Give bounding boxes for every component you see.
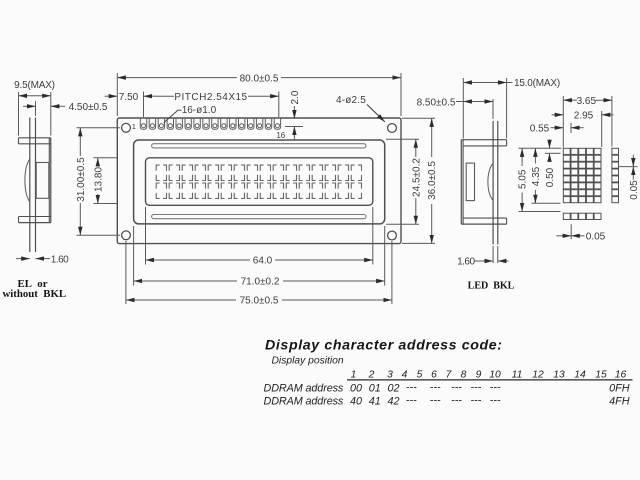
dot r3c4	[586, 162, 593, 168]
pin 13	[248, 119, 254, 130]
svg-text:0.05: 0.05	[629, 180, 640, 200]
character cell row1 col4	[195, 165, 205, 180]
dim 71.0 left segment	[134, 280, 237, 282]
ext line window left down	[145, 207, 147, 265]
ext line 80.0 left	[116, 73, 118, 116]
cursor row dot c3	[579, 213, 586, 219]
svg-text:DDRAM address: DDRAM address	[264, 396, 344, 408]
EL side top tab cap	[18, 138, 20, 144]
svg-text:1.60: 1.60	[457, 256, 475, 267]
character cell row1 col6	[221, 165, 231, 180]
dot r5c2	[571, 176, 578, 182]
dim 4.35 top segment	[534, 148, 536, 163]
pin 5	[176, 119, 182, 130]
LED side assembly top edge	[461, 139, 506, 141]
mounting hole top-left	[122, 123, 131, 132]
ext line bezel bottom right	[386, 223, 419, 225]
EL side bezel front face	[50, 138, 52, 223]
svg-text:0FH: 0FH	[609, 383, 630, 395]
gap column dot r7	[612, 190, 619, 196]
ext line grid bottom left	[532, 202, 561, 204]
character cell row2 col11	[286, 183, 296, 198]
dim 2.0 arrow to pin line	[293, 127, 295, 141]
dim 1.60 EL arrow left	[16, 258, 30, 260]
dim 8.50 lead-in	[456, 101, 463, 103]
svg-text:40: 40	[350, 396, 362, 408]
ext line PCB side left face	[492, 99, 494, 119]
svg-text:0.55: 0.55	[530, 123, 550, 134]
dot r6c3	[579, 183, 586, 189]
svg-text:15: 15	[595, 369, 607, 380]
character cell row2 col6	[221, 183, 231, 198]
dim 0.05 right arrow down	[632, 155, 634, 167]
svg-text:9.5(MAX): 9.5(MAX)	[14, 80, 55, 91]
svg-text:00: 00	[350, 383, 362, 395]
character cell row2 col4	[195, 183, 205, 198]
dim 1.60 EL arrow right	[36, 258, 51, 260]
character cell row2 col3	[182, 183, 192, 198]
pin 4	[167, 119, 173, 130]
character cell row2 col8	[247, 183, 257, 198]
svg-text:LED BKL: LED BKL	[468, 281, 515, 292]
dot r7c2	[571, 190, 578, 196]
EL side PCB left face	[29, 118, 31, 253]
gap column dot r8	[612, 197, 619, 203]
svg-text:---: ---	[490, 382, 501, 394]
dot r3c1	[563, 162, 570, 168]
svg-text:PITCH2.54X15: PITCH2.54X15	[174, 92, 247, 103]
EL side assembly top edge	[19, 137, 51, 139]
ext line hole bottom left	[77, 234, 121, 236]
character cell row1 col14	[325, 165, 335, 180]
dim 64.0 right segment	[275, 259, 373, 261]
ext line bezel right down	[384, 226, 386, 286]
svg-text:without BKL: without BKL	[2, 288, 66, 300]
svg-text:---: ---	[430, 395, 441, 407]
ext line EL PCB right face up	[35, 101, 37, 116]
pin 6	[185, 119, 191, 130]
dim 13.80 bottom segment	[97, 194, 99, 204]
character cell row2 col14	[325, 183, 335, 198]
pin 7	[194, 119, 200, 130]
dim 24.5 top segment	[415, 139, 417, 157]
tick first dot right edge	[570, 123, 572, 133]
dim line 15.0	[463, 82, 506, 84]
svg-text:4-ø2.5: 4-ø2.5	[336, 95, 366, 106]
dot r5c1	[563, 176, 570, 182]
svg-text:4.35: 4.35	[531, 166, 542, 186]
LED side lens arc	[488, 163, 493, 201]
svg-text:3: 3	[387, 369, 393, 380]
ext line bezel top right	[386, 138, 419, 140]
character cell row1 col7	[234, 165, 244, 180]
cursor row dot c2	[571, 213, 578, 219]
dim 0.05 bottom arrow left	[571, 235, 584, 237]
ext line side body front	[462, 78, 464, 139]
pin 16	[274, 119, 280, 130]
svg-text:13: 13	[553, 369, 565, 380]
ext line PCB top right	[402, 117, 435, 119]
character cell row2 col1	[156, 183, 166, 198]
svg-text:16: 16	[276, 131, 285, 140]
svg-text:2: 2	[368, 369, 375, 380]
ext line hole left down	[125, 241, 127, 304]
dot r2c1	[563, 155, 570, 161]
svg-text:15.0(MAX): 15.0(MAX)	[514, 78, 560, 89]
ext line LED PCB right down	[497, 246, 499, 263]
dot r1c2	[571, 148, 578, 154]
dot r7c3	[579, 190, 586, 196]
dim 0.55 arrow left	[551, 127, 564, 129]
ext line 80.0 right	[400, 73, 402, 116]
pin 8	[203, 119, 209, 130]
character cell row2 col12	[299, 183, 309, 198]
character cell row2 col7	[234, 183, 244, 198]
svg-text:6: 6	[431, 369, 437, 380]
svg-text:16-ø1.0: 16-ø1.0	[182, 105, 217, 116]
gap column dot r4	[612, 169, 619, 175]
dot r1c4	[586, 148, 593, 154]
dot r1c5	[594, 148, 601, 154]
dot r1c3	[579, 148, 586, 154]
dim 1.60 LED arrow right	[498, 260, 509, 262]
dot r4c2	[571, 169, 578, 175]
LED side inner top edge	[463, 145, 507, 147]
dot r8c2	[571, 197, 578, 203]
table rule	[347, 379, 633, 381]
svg-text:12: 12	[532, 369, 544, 380]
dot r5c3	[579, 176, 586, 182]
dot r6c5	[594, 183, 601, 189]
dim line pitch right segment	[248, 95, 279, 97]
ext line bezel left down	[133, 226, 135, 286]
dot r5c4	[586, 176, 593, 182]
dot r3c3	[579, 162, 586, 168]
ext line grid right up	[601, 111, 603, 147]
svg-text:0.05: 0.05	[586, 231, 606, 242]
gap column dot r3	[612, 162, 619, 168]
svg-text:7.50: 7.50	[119, 92, 139, 103]
svg-text:---: ---	[406, 382, 417, 394]
LED side PCB right face	[497, 121, 499, 244]
dot r2c2	[571, 155, 578, 161]
svg-text:0.50: 0.50	[545, 167, 556, 187]
character cell row1 col3	[182, 165, 192, 180]
EL side bezel front inner face	[48, 138, 50, 223]
dot r7c5	[594, 190, 601, 196]
ext line EL tab left	[18, 92, 20, 136]
EL side bottom tab cap	[18, 217, 20, 223]
leader dot gap bottom	[570, 224, 572, 239]
dot r8c1	[563, 197, 570, 203]
pin 12	[239, 119, 245, 130]
dim 4.35 bottom segment	[534, 190, 536, 203]
svg-text:71.0±0.2: 71.0±0.2	[241, 277, 280, 288]
svg-text:41: 41	[369, 396, 381, 408]
svg-text:---: ---	[451, 382, 462, 394]
pin 10	[221, 119, 227, 130]
svg-text:Display position: Display position	[272, 356, 344, 367]
pin 11	[230, 119, 236, 130]
cursor row dot c1	[563, 213, 570, 219]
svg-text:2.0: 2.0	[290, 90, 301, 104]
LED side bottom tab cap	[506, 218, 508, 224]
dot r6c2	[571, 183, 578, 189]
PCB outline (front view)	[117, 118, 401, 244]
dim line 80.0 left segment	[117, 77, 237, 79]
dim 64.0 left segment	[146, 259, 251, 261]
svg-text:4: 4	[402, 369, 408, 380]
dim 13.80 top segment	[97, 158, 99, 165]
pin 15	[265, 119, 271, 130]
ext line hole top left	[77, 127, 121, 129]
cursor row dot c5	[594, 213, 601, 219]
LED side bezel front inner face	[462, 140, 464, 224]
gap column dot r6	[612, 183, 619, 189]
dim 75.0 right segment	[282, 299, 392, 301]
dot r3c5	[594, 162, 601, 168]
dim 36.0 top segment	[431, 118, 433, 157]
character cell row1 col15	[338, 165, 348, 180]
mounting hole bottom-right	[388, 231, 397, 240]
dim line 8.50	[463, 101, 493, 103]
svg-text:13.80: 13.80	[93, 167, 104, 192]
EL side assembly bottom edge	[19, 222, 51, 224]
dot r8c3	[579, 197, 586, 203]
ext line window bottom left	[94, 203, 117, 205]
svg-text:8: 8	[461, 369, 467, 380]
svg-text:14: 14	[574, 369, 586, 380]
LED side PCB left face	[492, 121, 494, 244]
dim 75.0 left segment	[126, 299, 236, 301]
dim 4.50 arrow left	[23, 105, 36, 107]
dot r4c1	[563, 169, 570, 175]
dim 71.0 right segment	[283, 280, 385, 282]
ext line hole right down	[391, 241, 393, 304]
character cell row2 col5	[208, 183, 218, 198]
character cell row2 col9	[260, 183, 270, 198]
character cell row2 col10	[273, 183, 283, 198]
dot r4c4	[586, 169, 593, 175]
ext line EL front	[50, 92, 52, 136]
dim 31.00 bottom segment	[79, 203, 81, 235]
svg-text:2.95: 2.95	[574, 110, 594, 121]
svg-text:---: ---	[430, 382, 441, 394]
dim 2.95 outside arrow left	[552, 114, 564, 116]
bezel top slot	[152, 144, 366, 148]
EL side LCD glass	[36, 163, 49, 199]
character cell row1 col13	[312, 165, 322, 180]
dim 7.50 outside arrow right	[144, 95, 157, 97]
dot r3c2	[571, 162, 578, 168]
pin 9	[212, 119, 218, 130]
dim 0.05 right arrow up	[632, 167, 634, 180]
ext line first dot bottom	[545, 152, 561, 154]
dim 5.05 top segment	[521, 148, 523, 166]
svg-text:75.0±0.5: 75.0±0.5	[240, 296, 279, 307]
svg-text:9: 9	[476, 369, 482, 380]
svg-text:---: ---	[471, 395, 482, 407]
dim line 80.0 right segment	[281, 77, 401, 79]
svg-text:02: 02	[387, 383, 399, 395]
svg-text:8.50±0.5: 8.50±0.5	[417, 97, 456, 108]
dot r8c4	[586, 197, 593, 203]
svg-text:DDRAM address: DDRAM address	[264, 383, 344, 395]
dot r1c1	[563, 148, 570, 154]
svg-text:7: 7	[446, 369, 453, 380]
pin 1	[140, 119, 146, 130]
LED side bezel front face	[460, 140, 462, 224]
dim 5.05 bottom segment	[521, 193, 523, 212]
EL side inner top edge	[19, 143, 51, 145]
ext line gap col left up	[611, 96, 613, 147]
svg-text:16: 16	[615, 369, 627, 380]
character cell row1 col11	[286, 165, 296, 180]
svg-text:1.60: 1.60	[51, 254, 69, 265]
dim 36.0 bottom segment	[431, 204, 433, 243]
svg-text:36.0±0.5: 36.0±0.5	[427, 161, 438, 200]
svg-text:4.50±0.5: 4.50±0.5	[69, 102, 108, 113]
dim 3.65 right segment	[596, 99, 612, 101]
svg-text:---: ---	[471, 382, 482, 394]
ext line window right down	[372, 207, 374, 265]
display window	[146, 158, 373, 206]
svg-text:80.0±0.5: 80.0±0.5	[240, 73, 279, 84]
pin 3	[158, 119, 164, 130]
mounting hole bottom-left	[122, 231, 131, 240]
dim 3.65 left segment	[563, 99, 577, 101]
EL backlight bulge arc	[25, 159, 30, 202]
svg-text:11: 11	[512, 369, 523, 380]
dim line pitch left segment	[157, 95, 175, 97]
dim 31.00 top segment	[79, 128, 81, 156]
LED side assembly bottom edge	[461, 223, 506, 225]
character cell row1 col1	[156, 165, 166, 180]
dot r7c1	[563, 190, 570, 196]
character cell row1 col12	[299, 165, 309, 180]
svg-text:01: 01	[369, 383, 381, 395]
ext line cursor row left	[519, 211, 561, 213]
svg-text:42: 42	[387, 396, 399, 408]
gap column dot r2	[612, 155, 619, 161]
character cell row1 col9	[260, 165, 270, 180]
leader line to mounting hole	[367, 105, 385, 122]
character cell row2 col16	[351, 183, 361, 198]
dim 2.95 outside arrow right	[602, 114, 614, 116]
character cell row2 col2	[169, 183, 179, 198]
dot r4c5	[594, 169, 601, 175]
pin 2	[149, 119, 155, 130]
dot r6c4	[586, 183, 593, 189]
svg-text:3.65: 3.65	[577, 96, 597, 107]
cursor row dot c4	[586, 213, 593, 219]
character cell row1 col8	[247, 165, 257, 180]
svg-text:Display character address code: Display character address code:	[265, 338, 503, 354]
dim 15.0 tail	[507, 82, 513, 84]
svg-text:1: 1	[351, 369, 357, 380]
ext line pin bottom	[285, 126, 303, 128]
svg-text:31.00±0.5: 31.00±0.5	[76, 157, 87, 202]
character cell row1 col16	[351, 165, 361, 180]
gap column dot r1	[612, 148, 619, 154]
dot r2c3	[579, 155, 586, 161]
ext line pin16 center	[278, 92, 280, 118]
bezel outline	[134, 140, 385, 224]
ext line grid top left	[519, 147, 562, 149]
dim 1.60 LED arrow left	[475, 260, 494, 262]
dim 0.05 bottom arrow right	[556, 235, 571, 237]
dim line 9.5	[19, 95, 51, 97]
bezel bottom slot	[152, 215, 366, 219]
LED backlight block	[466, 163, 474, 201]
dot r2c5	[594, 155, 601, 161]
dim 0.50 arrow down	[549, 140, 551, 149]
leader line to pin 3	[164, 110, 182, 123]
svg-text:5.05: 5.05	[518, 169, 529, 189]
ext line window top left	[94, 157, 117, 159]
dot r7c4	[586, 190, 593, 196]
ext line LED PCB left down	[492, 246, 494, 263]
character cell row2 col13	[312, 183, 322, 198]
svg-text:---: ---	[490, 395, 501, 407]
character cell row1 col2	[169, 165, 179, 180]
ext line pin1 center	[143, 92, 145, 118]
dot r5c5	[594, 176, 601, 182]
svg-text:---: ---	[451, 395, 462, 407]
dim 0.55 arrow right	[571, 127, 584, 129]
dim 24.5 bottom segment	[415, 198, 417, 224]
gap column dot r5	[612, 176, 619, 182]
svg-text:64.0: 64.0	[253, 256, 273, 267]
ext line side tab end	[506, 78, 508, 139]
character cell row1 col5	[208, 165, 218, 180]
EL side inner bottom edge	[19, 216, 51, 218]
svg-text:1: 1	[132, 122, 136, 131]
ext line PCB bottom right	[402, 242, 435, 244]
character cell row2 col15	[338, 183, 348, 198]
mounting hole top-right	[388, 124, 397, 133]
dot r4c3	[579, 169, 586, 175]
LED side top tab cap	[506, 140, 508, 146]
dot r2c4	[586, 155, 593, 161]
ext line grid left up	[562, 96, 564, 148]
LED side inner bottom edge	[463, 217, 507, 219]
dim 7.50 outside arrow left	[105, 95, 118, 97]
dot r8c5	[594, 197, 601, 203]
svg-text:---: ---	[406, 395, 417, 407]
dim 0.50 arrow up	[549, 153, 551, 161]
dim 4.50 arrow right	[51, 105, 65, 107]
leader dot gap right	[619, 166, 638, 168]
dot r6c1	[563, 183, 570, 189]
EL side PCB right face	[35, 118, 37, 253]
pin 14	[256, 119, 262, 130]
svg-text:4FH: 4FH	[609, 396, 630, 408]
character cell row1 col10	[273, 165, 283, 180]
dim 2.0 arrow to PCB top	[293, 106, 295, 119]
svg-text:24.5±0.2: 24.5±0.2	[411, 158, 422, 197]
svg-text:5: 5	[417, 369, 423, 380]
svg-text:10: 10	[489, 369, 501, 380]
